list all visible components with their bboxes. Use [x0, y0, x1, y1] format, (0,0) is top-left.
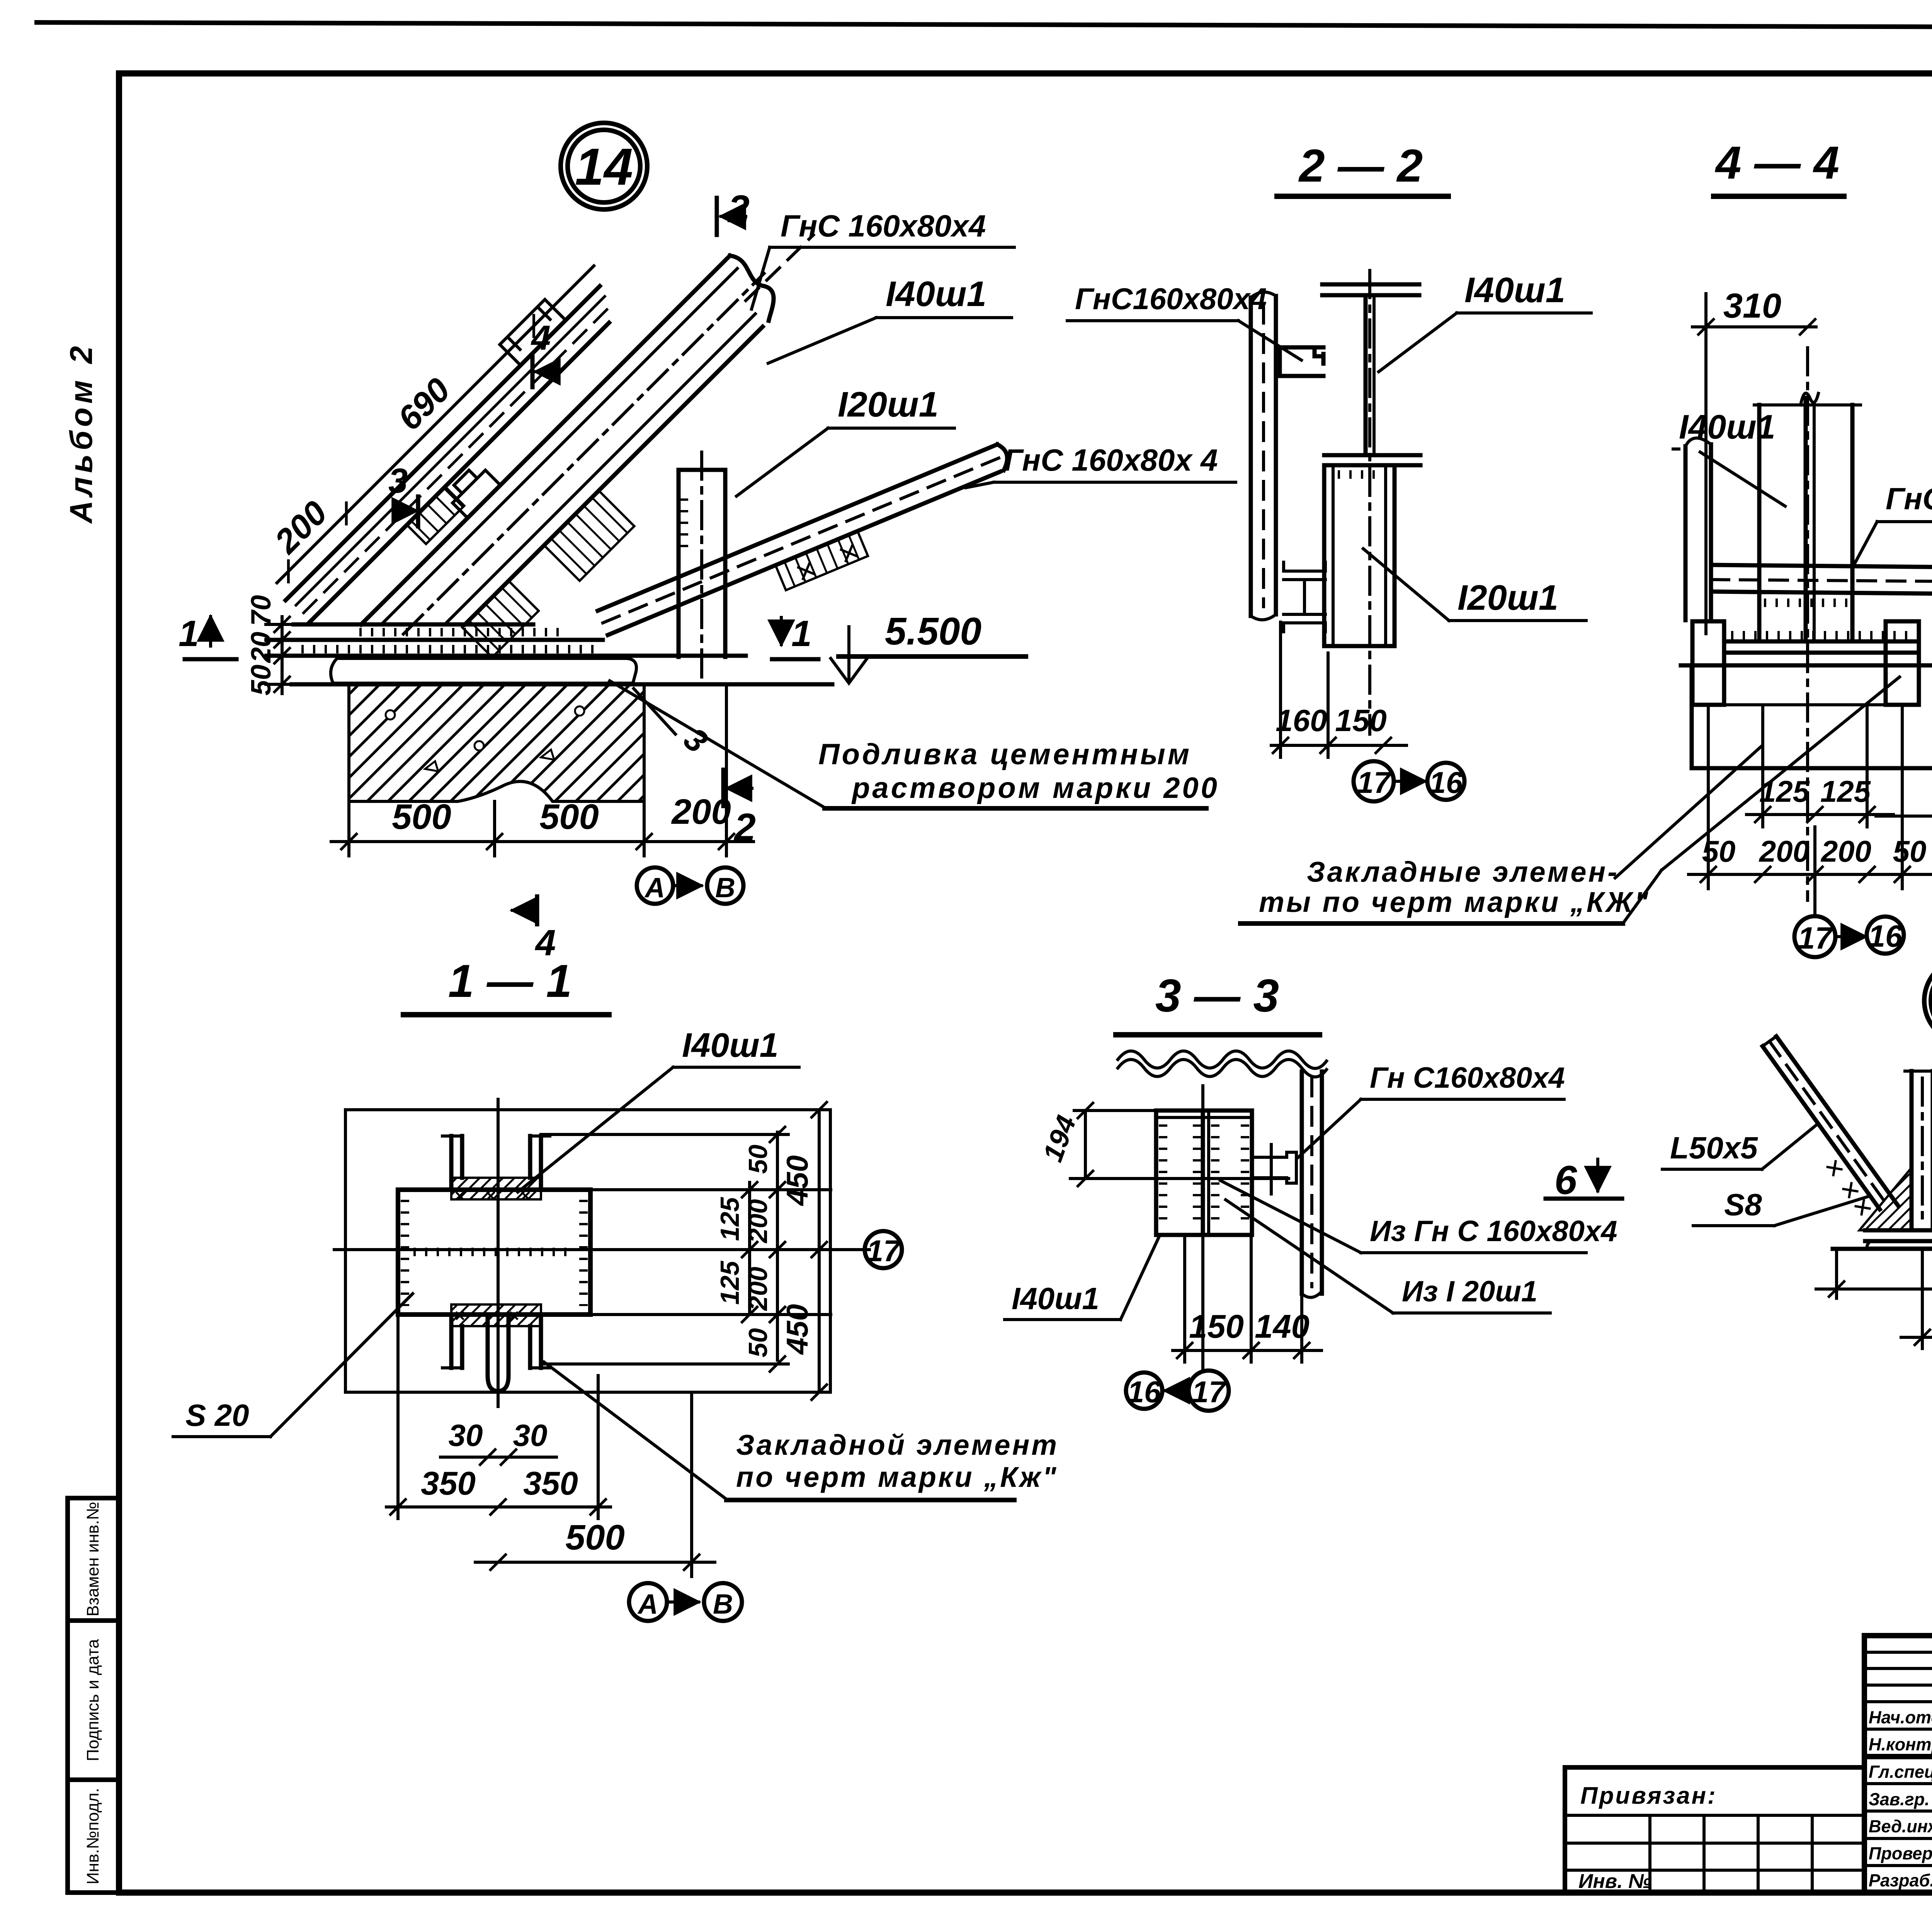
small bracket lower 2-2	[1284, 562, 1325, 632]
svg-text:I20ш1: I20ш1	[838, 385, 939, 424]
svg-text:В: В	[713, 1589, 733, 1620]
svg-text:А: А	[637, 1589, 658, 1620]
svg-text:17: 17	[867, 1234, 901, 1268]
title block signatures column texts	[1869, 1708, 1932, 1890]
svg-text:Вед.инж: Вед.инж	[1869, 1816, 1932, 1836]
foundation outline 4-4	[1692, 665, 1932, 768]
svg-text:160: 160	[1276, 703, 1327, 738]
svg-text:200: 200	[743, 1267, 773, 1311]
dimension 310 of 4-4	[1692, 287, 1816, 634]
elevation 5.500 of node 14	[831, 610, 1026, 683]
node bubble 16	[1924, 958, 1932, 1043]
label Gn160x80x4 2-2	[1067, 282, 1301, 360]
svg-text:17: 17	[1192, 1375, 1227, 1409]
plate small dim of node 16	[1816, 1252, 1932, 1298]
svg-text:А: А	[644, 872, 665, 903]
svg-text:2: 2	[727, 187, 750, 231]
section mark 4 upper	[531, 319, 556, 387]
column L75x6 of node 16	[1905, 1071, 1932, 1230]
gusset of node 16	[1859, 1168, 1912, 1230]
grid bubbles 16-17 of 3-3	[1126, 1371, 1229, 1411]
upper channel of 1-1	[442, 1136, 550, 1200]
label S8 of node 16	[1693, 1187, 1870, 1226]
svg-text:16: 16	[1868, 919, 1903, 953]
svg-text:раствором марки 200: раствором марки 200	[851, 772, 1219, 804]
wall member of section 2-2	[1251, 292, 1276, 620]
svg-text:2: 2	[733, 806, 756, 849]
dimension 125/125 of 4-4	[1747, 707, 1893, 827]
svg-text:1: 1	[791, 613, 812, 654]
label I20sh1 node14	[736, 385, 954, 496]
horizontal chord member 4-4	[1711, 565, 1932, 603]
svg-text:5.500: 5.500	[885, 610, 981, 653]
label I40sh1 4-4	[1673, 408, 1785, 506]
svg-text:450: 450	[780, 1155, 814, 1206]
section mark 3 upper	[388, 462, 418, 526]
svg-text:ГнС160х80х4: ГнС160х80х4	[1886, 481, 1932, 516]
svg-text:I20ш1: I20ш1	[1458, 578, 1558, 617]
title block outer	[1864, 1636, 1932, 1893]
svg-text:Гл.спец.: Гл.спец.	[1869, 1762, 1932, 1782]
svg-text:Нач.отд.: Нач.отд.	[1869, 1708, 1932, 1727]
splice plate on top flange	[444, 462, 500, 518]
svg-text:Из Гн С 160х80х4: Из Гн С 160х80х4	[1370, 1215, 1617, 1248]
svg-text:350: 350	[421, 1465, 476, 1502]
svg-text:ты по черт марки „КЖ": ты по черт марки „КЖ"	[1259, 886, 1650, 918]
svg-text:4: 4	[531, 319, 551, 357]
label L50x5 of node 16	[1662, 1124, 1818, 1169]
svg-text:14: 14	[575, 138, 633, 196]
svg-text:140: 140	[1255, 1308, 1310, 1345]
grout pad	[331, 658, 636, 683]
svg-text:ГнС 160х80х 4: ГнС 160х80х 4	[1004, 443, 1218, 477]
svg-text:150: 150	[1189, 1308, 1244, 1345]
label I20sh1 2-2	[1363, 549, 1586, 621]
ground line of node 16	[1833, 1247, 1932, 1251]
left small dims 50 20 70	[246, 595, 298, 696]
svg-text:200: 200	[1820, 834, 1871, 868]
svg-text:30: 30	[513, 1418, 548, 1452]
dimension 30/30 of 1-1	[440, 1418, 556, 1466]
svg-text:Закладной элемент: Закладной элемент	[736, 1429, 1059, 1461]
svg-text:50: 50	[246, 665, 277, 696]
svg-text:50: 50	[743, 1145, 773, 1174]
svg-text:I40ш1: I40ш1	[682, 1026, 779, 1064]
section mark 3 bottom leader	[634, 689, 714, 760]
label iz I20sh1 of 3-3	[1226, 1200, 1550, 1313]
centerlines of 1-1	[334, 1099, 869, 1406]
inclined chord member of node 14	[265, 265, 642, 643]
right dim stack of 1-1	[541, 1101, 831, 1401]
svg-text:Альбом 2: Альбом 2	[64, 342, 99, 524]
svg-text:1: 1	[179, 613, 199, 654]
level mark 1 left	[179, 613, 236, 659]
vertical post of node 14	[679, 452, 725, 678]
svg-text:500: 500	[392, 797, 451, 837]
label I40sh1 of 3-3	[1005, 1236, 1159, 1320]
svg-text:17: 17	[1357, 765, 1392, 799]
svg-text:125: 125	[1820, 774, 1871, 808]
svg-text:350: 350	[523, 1465, 578, 1502]
level mark 1 right	[772, 613, 818, 659]
section mark 4 lower	[512, 896, 556, 963]
channel bracket upper 2-2	[1280, 347, 1323, 376]
heading 1-1	[403, 955, 609, 1015]
section mark 2 bottom	[723, 770, 756, 849]
dimension 350/350 of 1-1	[386, 1318, 611, 1519]
heading 4-4	[1714, 137, 1844, 196]
label Gn160x80x4 top	[746, 209, 1014, 309]
label Gn160x80x4 of 3-3	[1298, 1061, 1565, 1157]
splice plate on chord	[407, 486, 464, 544]
svg-text:16: 16	[1429, 765, 1463, 799]
svg-text:L50x5: L50x5	[1670, 1131, 1758, 1165]
svg-text:Привязан:: Привязан:	[1580, 1782, 1717, 1809]
svg-text:50: 50	[1893, 834, 1927, 868]
dimension 50/200/200/50 of 4-4	[1689, 707, 1932, 889]
grid bubbles 17-16 of 2-2	[1354, 761, 1464, 801]
dimension line 690/200	[247, 236, 600, 589]
outline rect of plan 1-1	[345, 1110, 830, 1392]
base plate of 4-4	[1681, 635, 1932, 665]
box member I20sh1 of section 2-2	[1324, 270, 1395, 734]
svg-text:Закладные элемен-: Закладные элемен-	[1307, 856, 1619, 888]
heading 3-3	[1116, 970, 1320, 1035]
anchor loop of 1-1	[488, 1315, 509, 1391]
bracket between box and wall 3-3	[1252, 1145, 1296, 1194]
wall member of 3-3	[1302, 1071, 1322, 1298]
lower brace Gn160x80x4	[598, 442, 1022, 660]
svg-text:150: 150	[1335, 703, 1386, 738]
label Gn160x80x4 4-4	[1854, 481, 1932, 565]
svg-text:Зав.гр.: Зав.гр.	[1869, 1789, 1930, 1809]
I40 beam of section 2-2	[1322, 284, 1420, 465]
svg-text:30: 30	[449, 1418, 483, 1452]
svg-text:Н.контр.: Н.контр.	[1869, 1735, 1932, 1754]
section mark 6 of 3-3	[1546, 1158, 1622, 1203]
svg-text:Подливка цементным: Подливка цементным	[818, 738, 1192, 771]
label S20 of 1-1	[173, 1294, 413, 1437]
corrugated sheet wavy line 3-3	[1118, 1051, 1327, 1077]
node bubble 14	[561, 123, 647, 209]
svg-text:125: 125	[1759, 774, 1810, 808]
svg-text:125: 125	[715, 1260, 745, 1305]
label I40sh1 of 1-1	[518, 1026, 799, 1192]
label I40sh1 2-2	[1379, 270, 1591, 372]
gusset plate b	[544, 491, 634, 581]
dimension 500 of 1-1	[475, 1395, 715, 1577]
svg-text:Инв.№подл.: Инв.№подл.	[83, 1788, 102, 1884]
dimension 1600 of node 16	[1901, 1225, 1932, 1383]
dim 194 of 3-3	[1037, 1102, 1157, 1187]
top of concrete line	[292, 682, 832, 687]
label Gn160x80x4 right	[966, 443, 1236, 488]
privyazan table	[1565, 1767, 1864, 1893]
svg-text:50: 50	[743, 1328, 773, 1357]
svg-text:3 — 3: 3 — 3	[1155, 970, 1279, 1022]
svg-text:Взамен инв.№: Взамен инв.№	[83, 1502, 102, 1617]
note embedded element KZh of 1-1	[544, 1362, 1059, 1500]
svg-text:500: 500	[539, 797, 599, 837]
centerlines of 3-3	[1070, 1086, 1289, 1370]
svg-text:200: 200	[743, 1199, 773, 1244]
inclined beam I40sh1 of node 14	[338, 224, 825, 712]
base plate stack of node 14	[267, 624, 746, 656]
svg-text:В: В	[715, 872, 735, 903]
label anchor bolts f30	[1876, 785, 1932, 851]
svg-text:ГнС160х80х4: ГнС160х80х4	[1075, 282, 1267, 316]
svg-text:17: 17	[1798, 921, 1833, 955]
svg-text:Разраб.: Разраб.	[1869, 1871, 1932, 1890]
grid bubbles 17-16 of 4-4	[1794, 827, 1904, 957]
left wall member 4-4	[1685, 438, 1711, 620]
grid bubble 17 of 1-1	[831, 1231, 902, 1268]
left anchor block 4-4	[1692, 621, 1724, 705]
svg-text:I40ш1: I40ш1	[1012, 1281, 1099, 1316]
weld ticks inside plate 1-1	[405, 1200, 583, 1306]
dimension line 500/500/200	[331, 686, 753, 856]
concrete block hatched	[349, 684, 644, 801]
svg-text:I40ш1: I40ш1	[1679, 408, 1776, 446]
svg-text:I40ш1: I40ш1	[886, 274, 986, 314]
base plate of node 16	[1865, 1230, 1932, 1248]
svg-text:16: 16	[1128, 1375, 1161, 1409]
label I40sh1 node14	[768, 274, 1012, 363]
svg-text:50: 50	[1702, 834, 1736, 868]
svg-text:450: 450	[780, 1304, 814, 1355]
svg-text:500: 500	[565, 1518, 625, 1557]
embedded plate of 1-1	[398, 1190, 590, 1315]
gusset plate a	[462, 581, 539, 657]
channel bracket on chord	[500, 299, 565, 365]
column of section 4-4	[1754, 348, 1861, 900]
leader to embedded elements	[1662, 677, 1900, 870]
svg-text:по черт марки „Кж": по черт марки „Кж"	[736, 1461, 1058, 1493]
svg-text:Инв. №: Инв. №	[1578, 1870, 1651, 1893]
svg-text:1 — 1: 1 — 1	[448, 955, 572, 1007]
svg-text:125: 125	[715, 1197, 745, 1241]
svg-text:Гн С160х80х4: Гн С160х80х4	[1370, 1061, 1565, 1094]
left stamp column	[68, 1498, 119, 1893]
svg-text:200: 200	[1759, 834, 1810, 868]
dims 150/140 of 3-3	[1173, 1236, 1321, 1362]
svg-text:3: 3	[388, 462, 408, 500]
brace L50x5 of node 16	[1747, 1036, 1898, 1226]
note grout cement mortar	[610, 681, 1219, 808]
svg-text:Провер.: Провер.	[1869, 1844, 1932, 1863]
grid bubbles A-B of 1-1	[629, 1583, 742, 1621]
right anchor block 4-4	[1886, 621, 1919, 705]
svg-text:Из I 20ш1: Из I 20ш1	[1402, 1275, 1537, 1308]
svg-text:I40ш1: I40ш1	[1464, 270, 1565, 310]
svg-text:70: 70	[246, 595, 277, 626]
label iz Gn160x80x4 of 3-3	[1220, 1180, 1617, 1253]
heading 2-2	[1277, 140, 1448, 196]
note embedded elements KZh	[1240, 856, 1662, 923]
box member of 3-3	[1156, 1111, 1252, 1235]
svg-text:Подпись и дата: Подпись и дата	[83, 1639, 102, 1761]
svg-text:6: 6	[1554, 1158, 1577, 1203]
svg-text:310: 310	[1723, 287, 1781, 325]
sheet top edge line	[37, 22, 1932, 29]
svg-text:S8: S8	[1724, 1187, 1762, 1222]
svg-text:4 — 4: 4 — 4	[1715, 137, 1839, 189]
dimension 160/150 of 2-2	[1271, 622, 1406, 757]
section mark 2 top	[717, 187, 750, 235]
lower channel of 1-1	[442, 1304, 550, 1368]
svg-text:20: 20	[246, 632, 277, 663]
svg-text:2 — 2: 2 — 2	[1298, 140, 1423, 192]
grid bubbles A-B of node 14	[637, 867, 743, 904]
svg-text:S 20: S 20	[185, 1398, 249, 1432]
